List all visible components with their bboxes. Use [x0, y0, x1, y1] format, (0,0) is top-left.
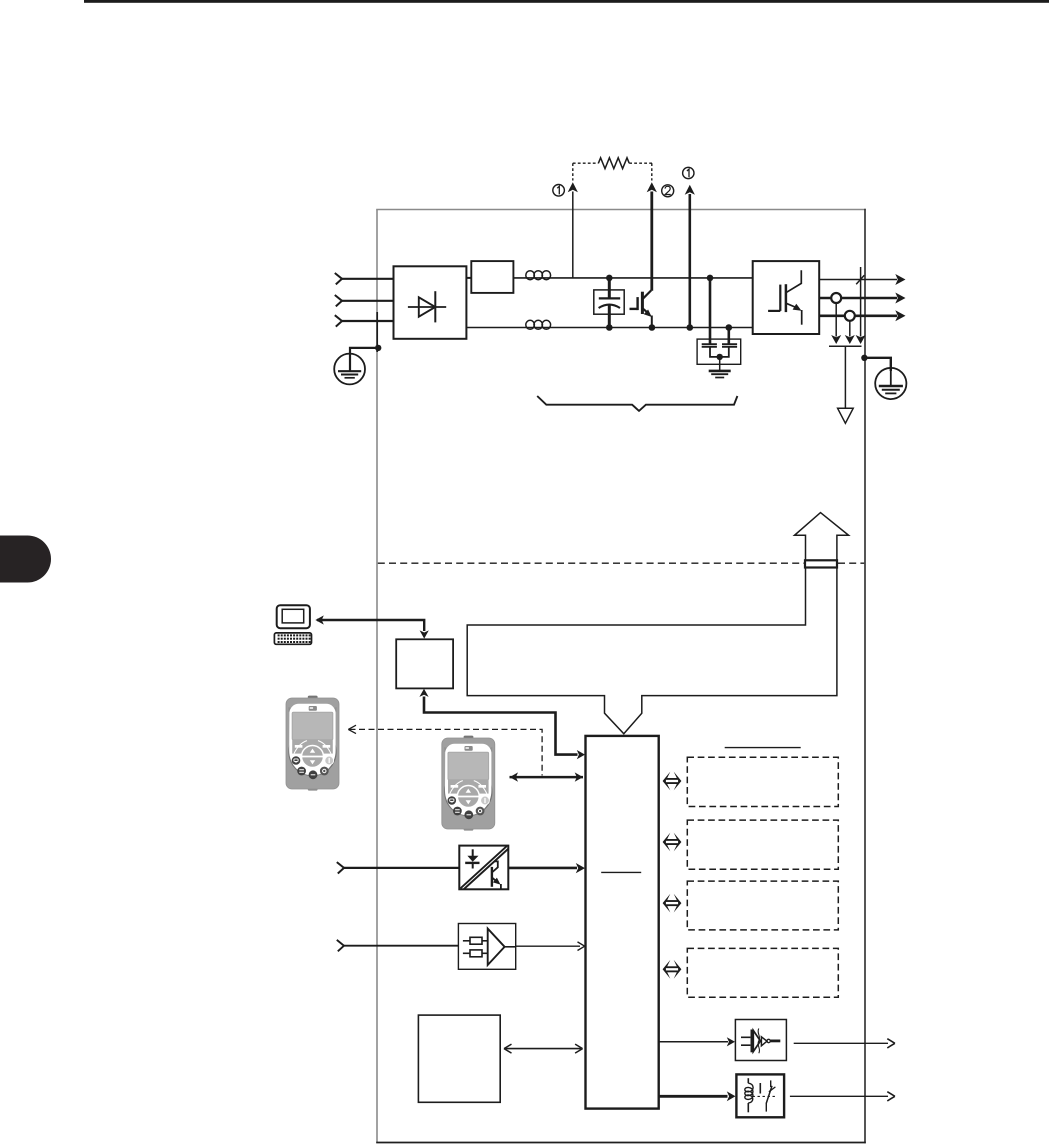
analog input box: [458, 924, 515, 970]
output W arrow: [895, 310, 905, 321]
charging circuit box: [471, 261, 513, 293]
outer enclosure border right: [864, 209, 866, 1144]
circled 1: [553, 185, 565, 197]
duct bridge at divider: [805, 560, 837, 567]
wire input S: [342, 300, 394, 302]
transistor output isolator box: [735, 1020, 786, 1061]
wire to left ground: [350, 348, 378, 371]
USB interface box: [396, 639, 453, 688]
analog amp resistors: [463, 940, 470, 942]
noise filter ground node: [717, 354, 723, 360]
wire CPU to transistor output: [659, 1041, 728, 1043]
digital input wire: [344, 867, 459, 869]
brace under power section: [537, 396, 737, 411]
braking resistor (external, dashed): [573, 162, 599, 164]
remote operator external (gray keypad): [286, 696, 339, 791]
wire top DC bus: [513, 277, 752, 279]
terminal 3 arrow and wire: [688, 194, 691, 328]
input chevron S: [335, 295, 342, 306]
analog input chevron: [337, 940, 344, 951]
CPU inner mark: [601, 871, 641, 873]
input chevron T: [335, 315, 342, 326]
transistor output symbol: [741, 1037, 750, 1045]
noise filter cap right: [727, 328, 730, 345]
PC monitor icon: [277, 605, 310, 628]
outer enclosure border left: [376, 210, 378, 1143]
rectifier diode symbol: [408, 306, 446, 308]
noise filter cap left: [709, 278, 712, 344]
wire to right ground: [864, 358, 890, 371]
bus double arrow 3: [663, 894, 682, 913]
option label underline: [725, 747, 801, 749]
inverter module box: [753, 261, 820, 334]
output V arrow: [895, 293, 905, 304]
wire analog box to CPU: [516, 945, 580, 947]
wire digital isolator to CPU: [508, 867, 577, 870]
option dashed box 2: [687, 820, 838, 869]
junction dots DC bus: [606, 275, 613, 282]
wire terminal box to CPU both ways: [506, 1048, 582, 1050]
terminal interface box: [418, 1015, 500, 1102]
analog op-amp: [488, 929, 505, 965]
smoothing capacitor box: [594, 290, 624, 314]
DC reactor top: [526, 271, 535, 280]
ground stub wire on border: [376, 312, 378, 352]
output V line: [819, 297, 897, 300]
terminal 1 arrow and wire: [572, 192, 574, 278]
inverter IGBT symbol: [768, 310, 780, 312]
isolator phototransistor: [491, 867, 493, 887]
output U line: [819, 279, 897, 281]
option dashed box 3: [687, 881, 838, 930]
wire USB box to CPU: [424, 697, 578, 755]
PC keyboard icon: [274, 633, 311, 644]
circled 2: [662, 185, 674, 197]
bus double arrow 4: [663, 960, 682, 979]
DC reactor bottom: [526, 320, 535, 329]
input chevron R: [335, 273, 342, 284]
CT on V: [831, 293, 841, 303]
CPU box: [586, 736, 659, 1109]
isolator double diagonal: [461, 846, 509, 889]
outer enclosure border bottom: [376, 1142, 866, 1144]
option dashed box 1: [687, 757, 838, 806]
wire rectifier to charging box: [466, 277, 471, 279]
operator on inverter (gray keypad): [442, 736, 495, 831]
braking IGBT: [630, 308, 638, 310]
bus double arrow 1: [663, 772, 682, 791]
analog input wire: [344, 945, 458, 947]
rectifier block: [394, 266, 467, 339]
wire CPU to relay output: [659, 1095, 728, 1098]
wire relay output external: [790, 1095, 888, 1097]
digital input chevron: [337, 862, 344, 873]
terminal 2 arrow and wire: [650, 192, 653, 291]
sense common bar: [829, 345, 862, 347]
chapter tab: [0, 536, 51, 583]
protective earth right: [875, 368, 906, 399]
power supply duct with up arrow and down arrow: [467, 513, 848, 734]
sense common wire: [844, 346, 846, 408]
relay output box: [736, 1074, 784, 1117]
relay link dashed: [753, 1095, 777, 1097]
output U arrow: [895, 274, 905, 285]
noise filter ground: [719, 357, 721, 371]
page header rule: [84, 0, 1049, 3]
wire PC to USB box: [317, 620, 424, 631]
digital input isolator box: [459, 846, 508, 890]
wire input R: [342, 278, 394, 280]
isolator LED: [472, 849, 474, 856]
noise filter capacitor box: [697, 339, 741, 364]
floating ground triangle: [838, 408, 854, 423]
circled 1b: [683, 167, 694, 178]
wire input T: [342, 320, 394, 322]
sense tap slash: [856, 275, 864, 284]
voltage sense wire: [860, 267, 862, 337]
wire transistor output external: [794, 1042, 888, 1044]
ground dot left on border: [375, 345, 381, 351]
relay contact: [759, 1083, 761, 1094]
option dashed box 4: [687, 948, 838, 997]
relay coil: [747, 1078, 749, 1083]
bus double arrow 2: [663, 833, 682, 852]
CT on W: [845, 311, 855, 321]
CT W sense wire: [849, 321, 851, 337]
smoothing capacitor: [608, 278, 611, 299]
ground dot right on border: [861, 355, 867, 361]
wire operator to CPU both ways: [510, 776, 584, 779]
wire bottom DC bus: [466, 327, 752, 329]
dashed optional operator wire: [350, 729, 543, 775]
CT V sense wire: [835, 303, 837, 337]
dashed divider main/control: [378, 562, 804, 564]
output W line: [819, 314, 897, 317]
protective earth left: [334, 354, 365, 385]
outer enclosure border top: [376, 209, 866, 211]
